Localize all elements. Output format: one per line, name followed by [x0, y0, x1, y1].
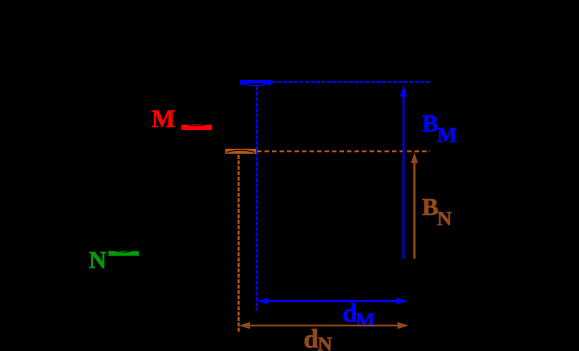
label B_M	[422, 111, 457, 148]
loop ring at point N projection (orange)	[225, 149, 256, 154]
svg-text:N: N	[89, 247, 107, 274]
svg-text:N: N	[318, 333, 333, 351]
svg-text:d: d	[304, 324, 319, 351]
orange horizontal dashed line (level of orange ring)	[257, 150, 430, 152]
svg-text:M: M	[437, 123, 457, 147]
loop ring at point N (green)	[108, 250, 138, 256]
loop ring at point M (red)	[181, 124, 212, 130]
arrow B_N (orange vertical)	[411, 152, 418, 258]
label d_N	[304, 324, 333, 351]
label M	[152, 106, 176, 133]
orange vertical dashed line (drop from orange ring)	[238, 155, 240, 333]
label N	[89, 247, 107, 274]
blue vertical dashed line (drop from top ring)	[256, 87, 258, 311]
arrow d_N (orange horizontal double-headed)	[239, 322, 409, 329]
svg-text:B: B	[422, 111, 438, 138]
arrow B_M (blue vertical)	[400, 85, 407, 259]
label d_M	[343, 298, 375, 332]
svg-text:M: M	[152, 106, 176, 133]
svg-text:N: N	[437, 208, 452, 230]
svg-text:M: M	[356, 309, 375, 331]
label B_N	[422, 194, 452, 230]
loop ring at curve top (blue)	[240, 80, 271, 86]
arrow d_M (blue horizontal double-headed)	[257, 298, 408, 305]
blue horizontal dashed line (level of top ring)	[272, 81, 430, 83]
svg-text:B: B	[422, 194, 438, 221]
